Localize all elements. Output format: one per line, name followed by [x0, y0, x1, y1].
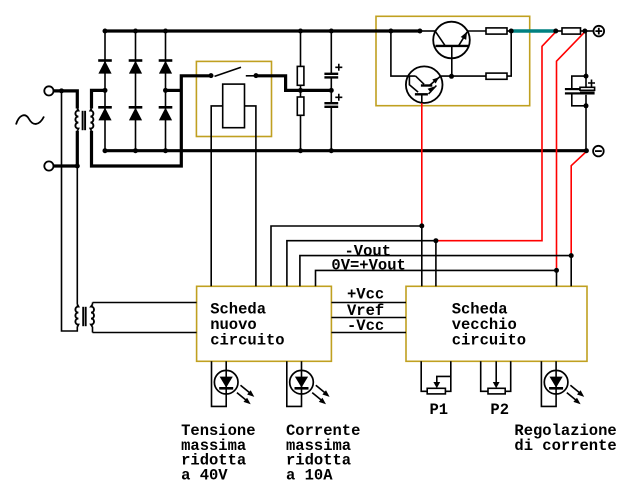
- svg-text:circuito: circuito: [210, 332, 284, 350]
- svg-text:circuito: circuito: [452, 332, 526, 350]
- svg-text:di corrente: di corrente: [514, 437, 616, 455]
- svg-text:+Vcc: +Vcc: [347, 285, 384, 303]
- svg-text:P2: P2: [490, 401, 509, 419]
- svg-text:a 10A: a 10A: [286, 466, 333, 484]
- svg-text:0V=+Vout: 0V=+Vout: [331, 257, 405, 275]
- svg-text:-Vcc: -Vcc: [347, 317, 384, 335]
- svg-text:P1: P1: [430, 401, 449, 419]
- svg-text:a 40V: a 40V: [181, 466, 228, 484]
